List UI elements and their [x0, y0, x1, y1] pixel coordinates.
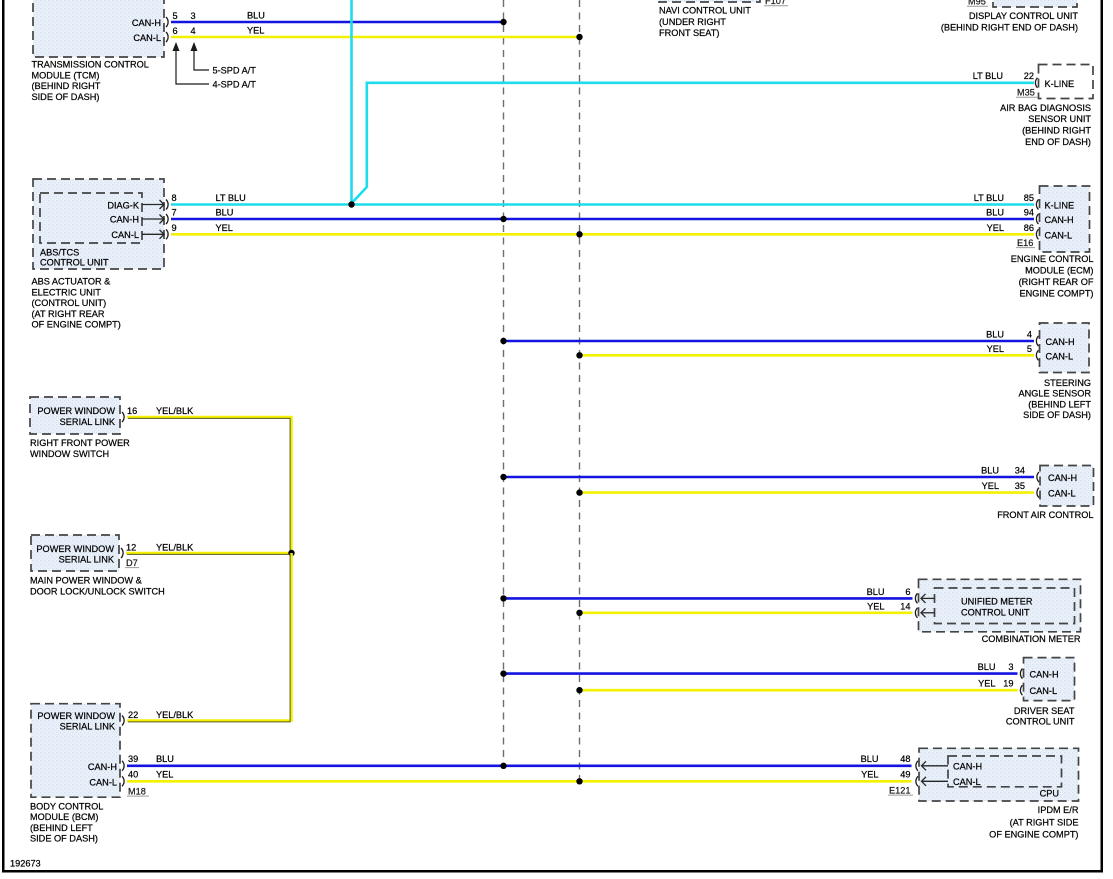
- TCM connector bracket CAN-H: [166, 17, 168, 27]
- wire steering CAN-L YEL: [580, 354, 1035, 357]
- svg-text:CONTROL UNIT: CONTROL UNIT: [961, 608, 1030, 618]
- IPDM CPU inner box: [948, 756, 1062, 787]
- wire driver seat CAN-L YEL: [580, 689, 1018, 692]
- svg-text:16: 16: [127, 406, 137, 416]
- svg-text:9: 9: [172, 223, 177, 233]
- svg-text:YEL: YEL: [216, 223, 233, 233]
- svg-text:M18: M18: [128, 786, 146, 796]
- svg-text:BLU: BLU: [978, 662, 996, 672]
- svg-text:34: 34: [1015, 466, 1025, 476]
- DISPLAY control unit box fragment (cut off at top): [993, 0, 1077, 7]
- IPDM connector bracket CAN-L: [916, 776, 918, 786]
- svg-text:IPDM E/R: IPDM E/R: [1038, 805, 1079, 815]
- svg-text:CAN-L: CAN-L: [1045, 230, 1073, 240]
- svg-text:SERIAL LINK: SERIAL LINK: [60, 722, 116, 732]
- svg-text:CAN-L: CAN-L: [1048, 489, 1076, 499]
- svg-text:LT BLU: LT BLU: [973, 71, 1003, 81]
- svg-text:192673: 192673: [10, 859, 41, 869]
- svg-text:CONTROL UNIT: CONTROL UNIT: [40, 258, 109, 268]
- svg-text:CAN-L: CAN-L: [1030, 686, 1058, 696]
- svg-text:CAN-L: CAN-L: [953, 777, 981, 787]
- svg-text:4-SPD A/T: 4-SPD A/T: [213, 80, 257, 90]
- wire ABS DIAG-K LT BLU: [171, 203, 1034, 206]
- K-line riser to DLC (vertical cyan): [350, 0, 353, 204]
- svg-text:POWER WINDOW: POWER WINDOW: [36, 544, 114, 554]
- wire ABS CAN-H BLU: [171, 218, 1034, 221]
- svg-text:CAN-L: CAN-L: [111, 230, 139, 240]
- junction driver seat CAN-L on bus: [576, 687, 582, 693]
- svg-text:BLU: BLU: [156, 754, 174, 764]
- steering connector bracket CAN-L: [1036, 350, 1038, 360]
- IPDM E/R outer box: [919, 748, 1079, 801]
- main PW connector id D7: [125, 558, 139, 568]
- combination internal arrow CAN-H: [921, 594, 935, 603]
- wire BCM CAN-H BLU: [127, 764, 912, 767]
- wire front air CAN-L YEL: [580, 491, 1035, 494]
- callout arrow 4-SPD A/T: [173, 42, 210, 84]
- svg-text:M35: M35: [1017, 87, 1035, 97]
- IPDM connector bracket CAN-H: [916, 761, 918, 771]
- svg-text:YEL/BLK: YEL/BLK: [156, 710, 194, 720]
- ABS caption: [32, 277, 121, 330]
- svg-text:22: 22: [128, 710, 138, 720]
- svg-text:POWER WINDOW: POWER WINDOW: [37, 711, 115, 721]
- svg-text:LT BLU: LT BLU: [216, 193, 246, 203]
- DISPLAY connector id M95: [967, 0, 988, 7]
- junction combination CAN-L on bus: [576, 610, 582, 616]
- BCM caption: [30, 801, 103, 843]
- BCM connector bracket CAN-H: [122, 761, 124, 771]
- air bag diagnosis sensor unit box: [1039, 65, 1094, 99]
- svg-text:K-LINE: K-LINE: [1045, 200, 1075, 210]
- wire main PW serial link YEL/BLK: [126, 553, 292, 554]
- main PW box label POWER WINDOW / SERIAL LINK: [36, 544, 114, 565]
- svg-text:4: 4: [1027, 330, 1032, 340]
- svg-text:BLU: BLU: [986, 208, 1004, 218]
- svg-text:TRANSMISSION CONTROL: TRANSMISSION CONTROL: [32, 60, 149, 70]
- svg-text:(UNDER RIGHT: (UNDER RIGHT: [659, 17, 726, 27]
- ECM connector bracket K-LINE: [1036, 200, 1038, 210]
- svg-text:BODY CONTROL: BODY CONTROL: [30, 801, 103, 811]
- junction K-line riser on DIAG-K wire: [348, 201, 354, 207]
- svg-text:(BEHIND RIGHT END OF DASH): (BEHIND RIGHT END OF DASH): [941, 23, 1078, 33]
- svg-text:48: 48: [900, 754, 910, 764]
- junction ABS CAN-H on bus: [500, 216, 506, 222]
- svg-text:ENGINE CONTROL: ENGINE CONTROL: [1011, 254, 1094, 264]
- svg-text:DIAG-K: DIAG-K: [107, 200, 140, 210]
- ECM connector id E16: [1016, 238, 1035, 248]
- svg-text:DRIVER SEAT: DRIVER SEAT: [1014, 706, 1075, 716]
- IPDM internal arrow CAN-L: [922, 777, 949, 786]
- BCM connector bracket serial link: [122, 716, 124, 726]
- wire ABS CAN-L YEL: [171, 233, 1034, 236]
- ABS internal arrow CAN-L: [142, 230, 164, 239]
- svg-text:YEL: YEL: [867, 601, 884, 611]
- ABS internal arrow DIAG-K: [142, 200, 164, 209]
- wire front air CAN-H BLU: [504, 476, 1035, 479]
- svg-text:CAN-H: CAN-H: [88, 762, 117, 772]
- combination meter outer box: [919, 579, 1081, 632]
- ECM connector bracket CAN-L: [1036, 229, 1038, 239]
- wire TCM CAN-H BLU: [171, 21, 504, 24]
- svg-text:CAN-H: CAN-H: [1030, 670, 1059, 680]
- svg-text:SERIAL LINK: SERIAL LINK: [60, 417, 116, 427]
- svg-text:E121: E121: [889, 785, 910, 795]
- ABS connector bracket DIAG-K: [166, 200, 168, 210]
- combination connector bracket CAN-L: [915, 608, 917, 618]
- svg-text:(BEHIND RIGHT: (BEHIND RIGHT: [1022, 126, 1091, 136]
- svg-text:SERIAL LINK: SERIAL LINK: [59, 555, 115, 565]
- svg-text:POWER WINDOW: POWER WINDOW: [37, 406, 115, 416]
- svg-text:YEL: YEL: [987, 344, 1004, 354]
- ABS/TCS control unit inner box: [40, 193, 142, 243]
- wire driver seat CAN-H BLU: [504, 672, 1018, 675]
- IPDM connector id E121: [888, 785, 913, 795]
- RF PW box label POWER WINDOW / SERIAL LINK: [37, 406, 115, 427]
- svg-text:SIDE OF DASH): SIDE OF DASH): [32, 92, 100, 102]
- svg-text:86: 86: [1024, 223, 1034, 233]
- steering caption: [1019, 378, 1092, 420]
- front air control box: [1040, 466, 1094, 507]
- svg-text:4: 4: [190, 26, 195, 36]
- svg-text:BLU: BLU: [867, 587, 885, 597]
- junction TCM CAN-L on bus: [576, 34, 582, 40]
- main power window switch box: [31, 535, 119, 571]
- svg-text:STEERING: STEERING: [1044, 378, 1091, 388]
- svg-text:SIDE OF DASH): SIDE OF DASH): [30, 834, 98, 844]
- svg-text:(AT RIGHT SIDE: (AT RIGHT SIDE: [1010, 818, 1079, 828]
- combination internal arrow CAN-L: [921, 608, 935, 617]
- BCM connector id M18: [127, 786, 149, 796]
- BCM box label POWER WINDOW / SERIAL LINK: [37, 711, 115, 732]
- svg-text:SIDE OF DASH): SIDE OF DASH): [1023, 410, 1091, 420]
- ECM box: [1040, 186, 1090, 252]
- svg-text:94: 94: [1024, 208, 1034, 218]
- steering connector bracket CAN-H: [1036, 336, 1038, 346]
- svg-text:CAN-H: CAN-H: [110, 215, 139, 225]
- junction ABS CAN-L on bus: [576, 231, 582, 237]
- svg-text:MODULE (ECM): MODULE (ECM): [1025, 266, 1093, 276]
- wire serial link trunk down to BCM: [127, 553, 292, 722]
- body control module box: [31, 704, 120, 798]
- svg-text:BLU: BLU: [981, 466, 999, 476]
- driver seat caption: [1006, 706, 1075, 727]
- svg-text:12: 12: [126, 543, 136, 553]
- junction steering CAN-L on bus: [576, 352, 582, 358]
- callout arrow 5-SPD A/T: [191, 42, 210, 70]
- frame border bottom: [2, 870, 1103, 873]
- svg-text:CONTROL UNIT: CONTROL UNIT: [1006, 717, 1075, 727]
- svg-text:CAN-L: CAN-L: [133, 33, 161, 43]
- wire combination meter CAN-L YEL: [580, 611, 913, 614]
- svg-text:UNIFIED METER: UNIFIED METER: [961, 597, 1033, 607]
- svg-text:40: 40: [128, 770, 138, 780]
- svg-text:K-LINE: K-LINE: [1045, 79, 1075, 89]
- air bag connector id M35: [1016, 87, 1038, 97]
- svg-text:RIGHT FRONT POWER: RIGHT FRONT POWER: [30, 438, 130, 448]
- svg-text:F107: F107: [765, 0, 786, 6]
- air bag caption: [1000, 103, 1091, 147]
- svg-text:(AT RIGHT REAR: (AT RIGHT REAR: [32, 309, 105, 319]
- svg-text:ANGLE SENSOR: ANGLE SENSOR: [1019, 389, 1092, 399]
- svg-text:3: 3: [190, 11, 195, 21]
- svg-text:39: 39: [128, 754, 138, 764]
- svg-text:YEL/BLK: YEL/BLK: [156, 543, 194, 553]
- front air connector bracket CAN-L: [1037, 488, 1039, 498]
- svg-text:YEL: YEL: [156, 770, 173, 780]
- CAN-H bus dashed line: [503, 0, 505, 765]
- svg-text:YEL: YEL: [982, 481, 999, 491]
- svg-text:ELECTRIC UNIT: ELECTRIC UNIT: [32, 287, 102, 297]
- junction front air CAN-L on bus: [576, 489, 582, 495]
- svg-text:OF ENGINE COMPT): OF ENGINE COMPT): [32, 320, 121, 330]
- RF PW caption: [30, 438, 130, 459]
- NAVI control unit box fragment (cut off at top): [659, 0, 760, 2]
- svg-text:LT BLU: LT BLU: [974, 193, 1004, 203]
- svg-text:CAN-H: CAN-H: [1048, 473, 1077, 483]
- wire combination meter CAN-H BLU: [504, 597, 913, 600]
- svg-text:6: 6: [172, 26, 177, 36]
- frame border left: [2, 0, 5, 873]
- main PW connector bracket: [121, 548, 123, 558]
- TCM module box (top cut off): [33, 0, 164, 57]
- svg-text:(BEHIND LEFT: (BEHIND LEFT: [30, 823, 93, 833]
- svg-text:AIR BAG DIAGNOSIS: AIR BAG DIAGNOSIS: [1000, 103, 1091, 113]
- svg-text:85: 85: [1024, 193, 1034, 203]
- svg-text:5-SPD A/T: 5-SPD A/T: [213, 66, 257, 76]
- svg-text:D7: D7: [126, 558, 138, 568]
- DISPLAY caption: [941, 11, 1079, 33]
- svg-text:7: 7: [172, 208, 177, 218]
- TCM caption: [32, 60, 149, 102]
- ABS actuator outer box: [33, 179, 164, 269]
- svg-text:E16: E16: [1017, 238, 1033, 248]
- steering angle sensor box: [1040, 323, 1090, 373]
- svg-text:5: 5: [1027, 344, 1032, 354]
- svg-text:DOOR LOCK/UNLOCK SWITCH: DOOR LOCK/UNLOCK SWITCH: [30, 586, 165, 596]
- front air connector bracket CAN-H: [1037, 472, 1039, 482]
- ABS connector bracket CAN-L: [166, 229, 168, 239]
- junction front air CAN-H on bus: [500, 474, 506, 480]
- svg-text:CAN-H: CAN-H: [132, 18, 161, 28]
- svg-text:CAN-L: CAN-L: [89, 777, 117, 787]
- svg-text:ABS ACTUATOR &: ABS ACTUATOR &: [32, 277, 111, 287]
- svg-text:MODULE (BCM): MODULE (BCM): [30, 812, 98, 822]
- unified meter control unit label: [961, 597, 1033, 618]
- driver seat connector bracket CAN-L: [1020, 685, 1022, 695]
- svg-text:YEL: YEL: [247, 26, 264, 36]
- wire RF PW serial link YEL/BLK (right then down): [127, 417, 292, 553]
- svg-text:(RIGHT REAR OF: (RIGHT REAR OF: [1019, 277, 1094, 287]
- unified meter control unit inner box: [935, 588, 1075, 624]
- svg-text:MAIN POWER WINDOW &: MAIN POWER WINDOW &: [30, 576, 142, 586]
- svg-text:19: 19: [1003, 679, 1013, 689]
- TCM connector bracket CAN-L: [166, 32, 168, 42]
- svg-text:M95: M95: [968, 0, 986, 7]
- svg-text:SENSOR UNIT: SENSOR UNIT: [1028, 114, 1091, 124]
- right front power window switch box: [30, 397, 120, 434]
- svg-text:COMBINATION METER: COMBINATION METER: [982, 634, 1081, 644]
- junction BCM CAN-L on bus: [576, 778, 582, 784]
- junction driver seat CAN-H on bus: [500, 670, 506, 676]
- driver seat connector bracket CAN-H: [1020, 669, 1022, 679]
- junction serial link: [288, 550, 294, 556]
- svg-text:YEL: YEL: [861, 770, 878, 780]
- svg-text:22: 22: [1024, 71, 1034, 81]
- IPDM caption: [989, 805, 1079, 839]
- svg-text:OF ENGINE COMPT): OF ENGINE COMPT): [989, 829, 1078, 839]
- svg-text:5: 5: [172, 11, 177, 21]
- air bag connector bracket K-LINE: [1035, 78, 1037, 88]
- combination connector bracket CAN-H: [915, 593, 917, 603]
- svg-text:(BEHIND RIGHT: (BEHIND RIGHT: [32, 81, 101, 91]
- svg-text:FRONT AIR CONTROL: FRONT AIR CONTROL: [997, 510, 1093, 520]
- svg-text:DISPLAY CONTROL UNIT: DISPLAY CONTROL UNIT: [969, 11, 1078, 21]
- svg-text:CPU: CPU: [1040, 789, 1059, 799]
- ABS internal arrow CAN-H: [142, 215, 164, 224]
- svg-text:MODULE (TCM): MODULE (TCM): [32, 70, 100, 80]
- svg-text:3: 3: [1008, 662, 1013, 672]
- svg-text:BLU: BLU: [247, 11, 265, 21]
- junction steering CAN-H on bus: [500, 338, 506, 344]
- svg-text:END OF DASH): END OF DASH): [1025, 137, 1091, 147]
- svg-text:CAN-L: CAN-L: [1046, 352, 1074, 362]
- svg-text:YEL/BLK: YEL/BLK: [156, 406, 194, 416]
- svg-text:(CONTROL UNIT): (CONTROL UNIT): [32, 298, 107, 308]
- svg-text:35: 35: [1015, 481, 1025, 491]
- svg-text:8: 8: [172, 193, 177, 203]
- junction combination CAN-H on bus: [500, 595, 506, 601]
- svg-text:CAN-H: CAN-H: [1046, 337, 1075, 347]
- svg-text:NAVI CONTROL UNIT: NAVI CONTROL UNIT: [659, 6, 751, 16]
- svg-text:FRONT SEAT): FRONT SEAT): [659, 28, 719, 38]
- junction BCM CAN-H on bus: [500, 763, 506, 769]
- wire BCM CAN-L YEL: [127, 780, 912, 783]
- svg-text:ENGINE COMPT): ENGINE COMPT): [1019, 289, 1093, 299]
- K-line branch to air bag unit (up and right): [352, 83, 1034, 203]
- junction TCM CAN-H on bus: [500, 19, 506, 25]
- wire TCM CAN-L YEL: [171, 36, 580, 39]
- NAVI caption: [659, 6, 751, 39]
- svg-text:WINDOW SWITCH: WINDOW SWITCH: [30, 449, 109, 459]
- svg-text:CAN-H: CAN-H: [953, 762, 982, 772]
- svg-text:YEL: YEL: [978, 679, 995, 689]
- svg-text:49: 49: [900, 770, 910, 780]
- wire steering CAN-H BLU: [504, 340, 1035, 343]
- svg-text:14: 14: [900, 601, 910, 611]
- svg-text:BLU: BLU: [986, 330, 1004, 340]
- svg-text:BLU: BLU: [216, 208, 234, 218]
- svg-text:YEL: YEL: [987, 223, 1004, 233]
- main PW caption: [30, 576, 165, 597]
- svg-text:BLU: BLU: [861, 754, 879, 764]
- RF PW connector bracket: [122, 412, 124, 422]
- ABS connector bracket CAN-H: [166, 214, 168, 224]
- svg-text:6: 6: [905, 587, 910, 597]
- BCM connector bracket CAN-L: [122, 776, 124, 786]
- driver seat control unit box: [1024, 658, 1075, 701]
- NAVI connector id F107: [764, 0, 788, 6]
- svg-text:ABS/TCS: ABS/TCS: [40, 248, 79, 258]
- frame border right: [1101, 0, 1104, 873]
- svg-text:CAN-H: CAN-H: [1045, 215, 1074, 225]
- IPDM internal arrow CAN-H: [922, 761, 949, 770]
- ECM connector bracket CAN-H: [1036, 214, 1038, 224]
- CAN-L bus dashed line: [579, 0, 581, 781]
- svg-text:(BEHIND LEFT: (BEHIND LEFT: [1028, 399, 1091, 409]
- ECM caption: [1011, 254, 1094, 299]
- ABS inner caption: [40, 248, 109, 268]
